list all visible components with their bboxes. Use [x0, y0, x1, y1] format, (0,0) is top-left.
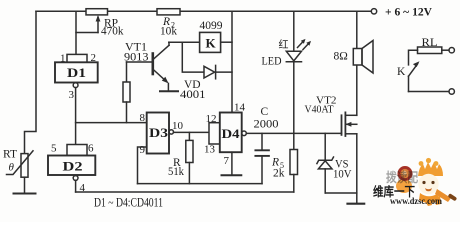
- svg-text:12: 12: [206, 113, 217, 125]
- svg-text:13: 13: [204, 144, 216, 156]
- svg-text:D3: D3: [149, 125, 169, 140]
- wire collector to relay coil: [169, 41, 200, 43]
- svg-text:5: 5: [51, 143, 57, 155]
- svg-text:2: 2: [91, 52, 97, 64]
- svg-text:1: 1: [60, 53, 66, 65]
- svg-text:+ 6 ~ 12V: + 6 ~ 12V: [385, 4, 432, 18]
- gate D2: [48, 145, 95, 193]
- resistor R2: [157, 9, 180, 15]
- diode VD: [204, 65, 232, 78]
- svg-text:6: 6: [88, 143, 94, 155]
- node terminal upper: [449, 48, 454, 53]
- node terminal lower: [449, 89, 454, 94]
- svg-text:4: 4: [80, 182, 86, 194]
- resistor R5: [290, 133, 298, 192]
- wire node A horizontal to D3 pin8: [76, 122, 147, 124]
- svg-text:D4: D4: [222, 126, 241, 141]
- svg-text:2000: 2000: [254, 119, 279, 131]
- transistor VT1: [127, 42, 170, 90]
- svg-text:D1: D1: [67, 65, 86, 80]
- svg-text:470k: 470k: [101, 26, 124, 38]
- svg-text:K: K: [206, 36, 217, 51]
- svg-text:θ: θ: [9, 162, 15, 174]
- svg-text:LED: LED: [262, 56, 282, 68]
- wire to lower terminal: [409, 91, 449, 93]
- mosfet VT2: [342, 65, 357, 203]
- svg-text:D1 ~ D4:CD4011: D1 ~ D4:CD4011: [94, 195, 163, 210]
- node +V terminal: [371, 9, 376, 14]
- svg-text:10: 10: [172, 120, 184, 132]
- speaker: [353, 11, 373, 73]
- svg-text:4001: 4001: [180, 89, 206, 101]
- svg-text:9: 9: [140, 144, 146, 156]
- svg-text:8Ω: 8Ω: [334, 51, 348, 63]
- svg-text:51k: 51k: [168, 166, 184, 178]
- zener VS: [317, 133, 334, 193]
- wire D4 out to VT2 gate: [246, 132, 341, 134]
- resistor base of VT1: [123, 62, 130, 123]
- ground pin7: [222, 174, 242, 176]
- wire top rail: [36, 10, 371, 12]
- wire line B D2 output: [76, 191, 294, 193]
- wire D3 out to D4 in: [174, 131, 210, 133]
- relay coil K: [200, 32, 221, 52]
- svg-text:V40AT: V40AT: [305, 104, 334, 116]
- svg-text:10V: 10V: [333, 169, 352, 181]
- gate D1: [55, 54, 98, 87]
- ground RT: [14, 193, 36, 195]
- svg-text:RL: RL: [422, 37, 438, 49]
- wire D3 pin9 feedback: [138, 147, 147, 184]
- wire D1 output to D2 input: [75, 88, 77, 146]
- svg-text:C: C: [261, 106, 269, 118]
- capacitor C: [255, 133, 269, 183]
- potentiometer RP: [76, 9, 108, 33]
- wire RL right: [442, 49, 449, 51]
- svg-text:K: K: [397, 66, 406, 78]
- svg-text:9013: 9013: [124, 52, 149, 64]
- wire D1 input drop: [75, 11, 77, 54]
- resistor R 51k: [186, 132, 193, 183]
- gate D3: [147, 113, 174, 154]
- wire zener to source: [325, 192, 356, 194]
- wire D4 pin7: [231, 152, 233, 175]
- wire K to right bus: [221, 41, 232, 43]
- svg-text:7: 7: [224, 155, 230, 167]
- svg-text:D2: D2: [63, 159, 83, 174]
- svg-text:www.dzsc.com: www.dzsc.com: [390, 196, 442, 206]
- ground VT1 emitter: [160, 90, 178, 92]
- watermark mascots: [396, 158, 457, 206]
- thermistor RT: [7, 151, 34, 177]
- LED: [286, 11, 311, 133]
- svg-text:3: 3: [69, 89, 75, 101]
- svg-text:拨读配: 拨读配: [386, 170, 418, 185]
- svg-text:4099: 4099: [200, 20, 223, 32]
- wire RT to ground: [24, 177, 26, 193]
- wire line A: [138, 183, 263, 185]
- svg-text:8: 8: [140, 112, 146, 124]
- wire right bus to pin14: [231, 11, 233, 112]
- ground VT2 source: [348, 203, 365, 205]
- svg-text:10k: 10k: [160, 26, 177, 38]
- svg-text:14: 14: [234, 102, 246, 114]
- svg-text:2k: 2k: [273, 168, 285, 180]
- switch K contact: [409, 61, 420, 91]
- wire left rail: [25, 11, 37, 153]
- wire RL left: [409, 50, 418, 65]
- wire VD branch: [182, 42, 203, 72]
- resistor RL: [418, 47, 442, 54]
- svg-text:RT: RT: [3, 149, 17, 161]
- svg-text:红: 红: [279, 38, 289, 51]
- gate D4: [209, 113, 246, 153]
